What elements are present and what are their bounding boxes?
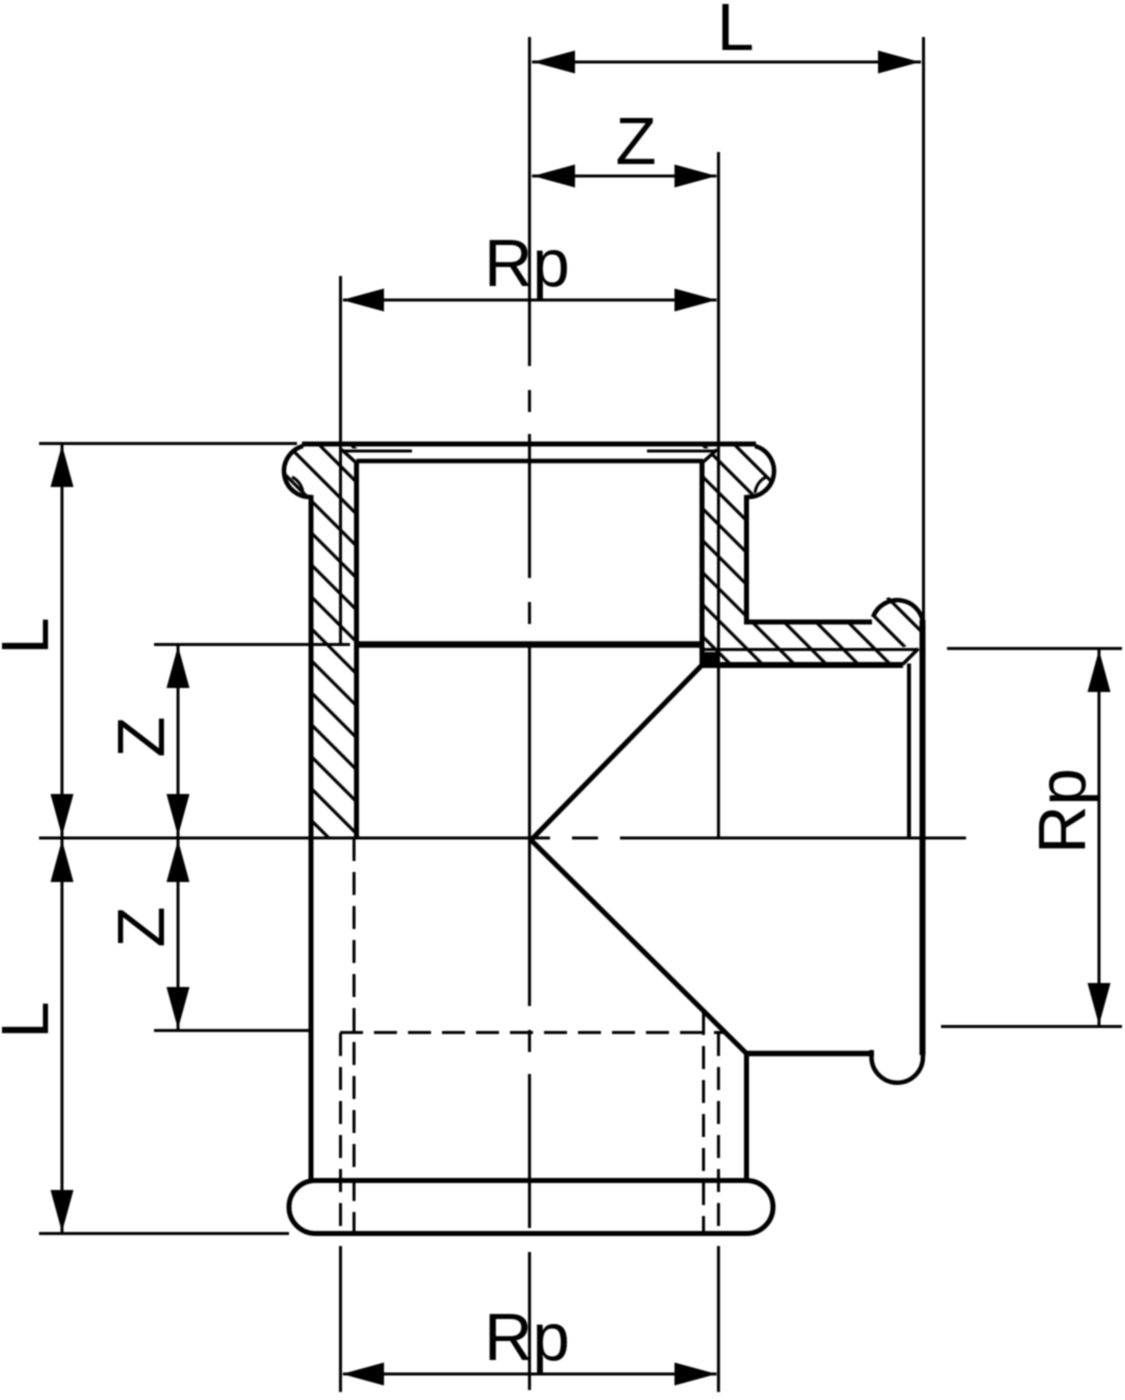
- dimension Z left line: [177, 645, 180, 1031]
- right bead inner arc: [755, 477, 766, 493]
- white chamfer wedge left mouth: [343, 449, 358, 463]
- dimension Z left: extension line bottom: [154, 1029, 309, 1032]
- branch bottom bead arc: [872, 1048, 923, 1083]
- branch mouth inner line: [907, 664, 911, 839]
- right mouth chamfer: [702, 450, 718, 464]
- corner junction fill at right crest: [700, 652, 717, 668]
- branch mouth face line: [920, 620, 926, 1055]
- dimension Rp bottom arrows: [342, 1363, 384, 1386]
- lower chamfer diagonal: [531, 840, 747, 1054]
- dimension L left line: [61, 444, 64, 1234]
- bottom bead stadium: [289, 1181, 773, 1234]
- upper bore diagonal: [531, 664, 703, 840]
- centerline vertical: [528, 37, 531, 1390]
- left mouth chamfer: [342, 450, 358, 464]
- top mouth inner line: [357, 459, 704, 464]
- dimension Rp right line: [1098, 649, 1101, 1026]
- left crest and bore line: [354, 461, 359, 838]
- white chamfer wedge right mouth: [701, 449, 716, 463]
- left outer wall: [309, 495, 314, 1181]
- svg-text:L: L: [0, 617, 63, 654]
- svg-text:Z: Z: [616, 104, 657, 179]
- branch bore line: [701, 662, 903, 668]
- hatched section: left wall: [280, 438, 362, 844]
- centerline horizontal: [39, 837, 966, 840]
- dimension Z left: extension line top: [154, 643, 350, 646]
- dimension Z top arrows: [533, 165, 575, 188]
- dimension Rp bottom: extension right: [717, 1246, 720, 1392]
- dimension L top arrows: [533, 51, 575, 74]
- right outer wall lower: [744, 1052, 749, 1181]
- dimension Rp bottom line: [343, 1373, 717, 1376]
- top face line: [302, 442, 756, 447]
- branch bead outline: [873, 600, 923, 622]
- hidden thread lines (dashed) bottom mouth: [340, 838, 723, 1231]
- dimension L top line: [532, 61, 921, 64]
- svg-text:Rp: Rp: [484, 226, 570, 301]
- right outer wall upper: [744, 495, 749, 622]
- dimension Rp right arrows: [1088, 650, 1111, 692]
- dimension Z top line: [532, 175, 717, 178]
- right mouth runout line: [647, 450, 717, 453]
- dimension Rp right: extension top: [947, 647, 1122, 650]
- thin root line left / Rp extension: [339, 276, 342, 645]
- dimension L top: extension right: [922, 37, 925, 620]
- dimension L left: extension line top: [39, 442, 297, 445]
- thread shoulder line: [354, 641, 704, 648]
- thin root line right / Z Rp extension: [717, 152, 720, 838]
- branch outer top line: [744, 620, 872, 625]
- svg-text:Z: Z: [104, 717, 179, 758]
- branch bottom outer line: [746, 1051, 874, 1057]
- svg-text:L: L: [717, 0, 754, 65]
- svg-text:Rp: Rp: [1025, 768, 1100, 854]
- dimension left: extension line bottom: [39, 1232, 289, 1235]
- left bead outline: [284, 446, 312, 497]
- branch mouth chamfer: [903, 649, 919, 665]
- svg-text:L: L: [0, 1001, 63, 1038]
- left bead inner arc: [292, 477, 303, 493]
- left mouth runout line: [342, 450, 412, 453]
- dimension Rp right: extension bottom: [941, 1025, 1122, 1028]
- svg-text:Rp: Rp: [484, 1300, 570, 1375]
- white chamfer wedge branch mouth: [904, 649, 919, 664]
- dimension L left arrows: [51, 445, 74, 487]
- hatched section: right wall and branch top wall: [698, 438, 928, 670]
- right bead outline: [747, 446, 775, 497]
- dimension Rp bottom: extension left: [339, 1246, 342, 1392]
- right crest line: [700, 461, 705, 665]
- svg-text:Z: Z: [104, 907, 179, 948]
- dimension Rp top arrows: [342, 289, 384, 312]
- dimension Z left arrows: [167, 646, 190, 688]
- branch root line: [704, 648, 917, 651]
- dimension Rp top line: [343, 299, 717, 302]
